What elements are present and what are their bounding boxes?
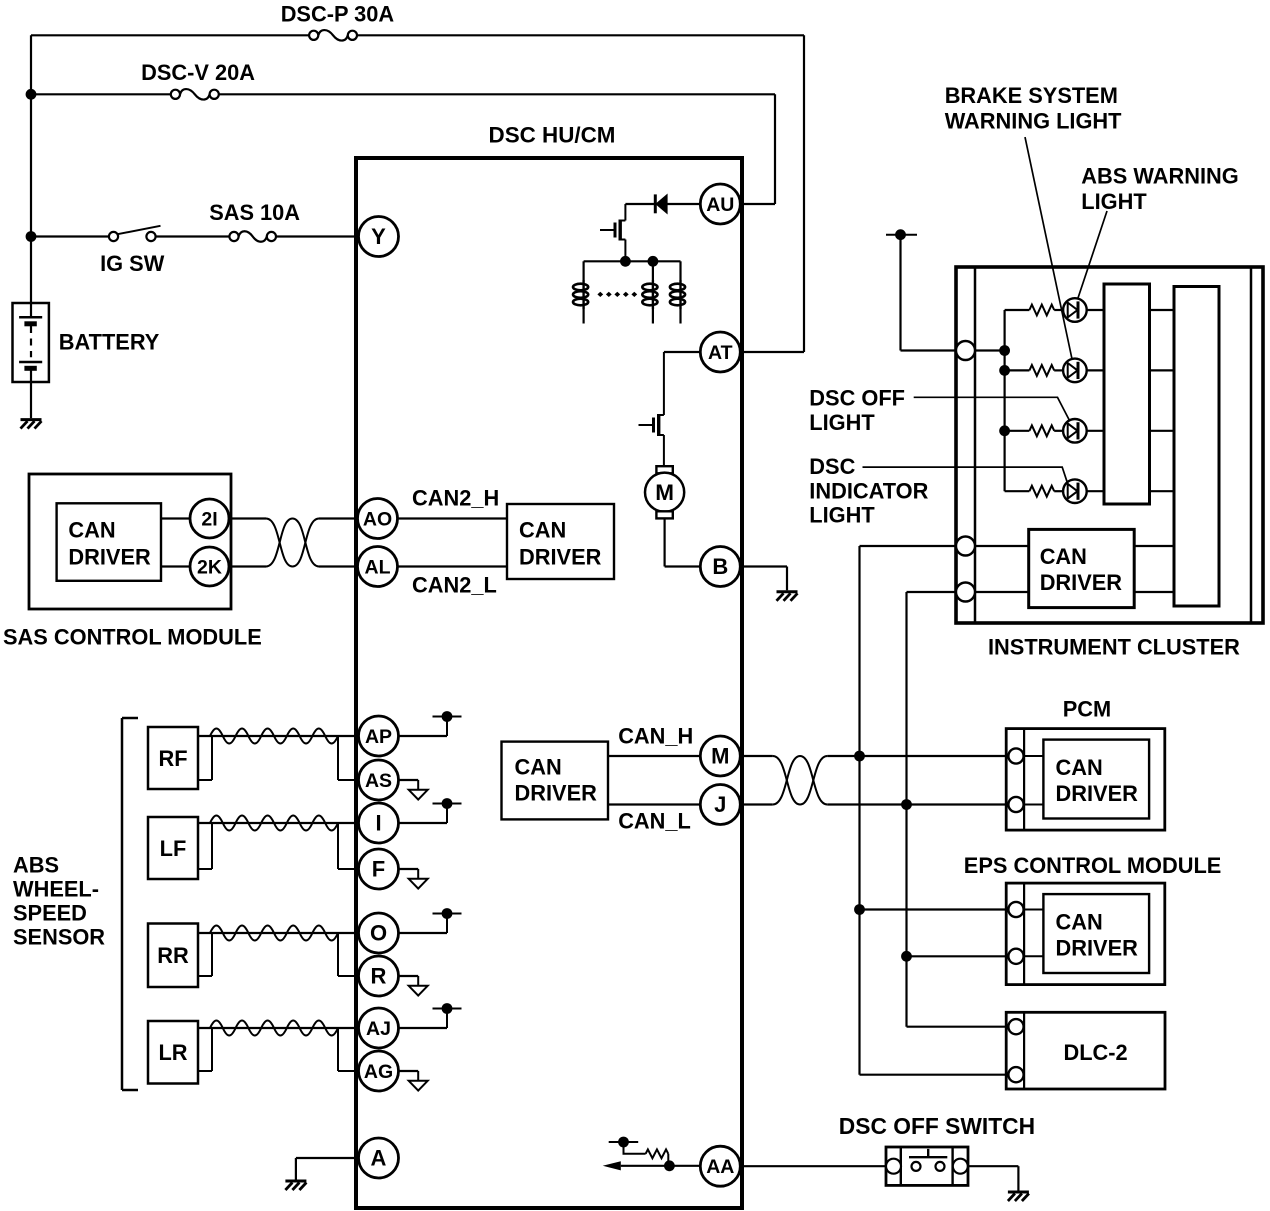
svg-text:DRIVER: DRIVER	[1056, 781, 1139, 806]
svg-text:BATTERY: BATTERY	[59, 330, 160, 355]
svg-text:AT: AT	[708, 342, 733, 364]
svg-text:AG: AG	[364, 1061, 393, 1083]
svg-text:M: M	[655, 480, 674, 505]
svg-text:DLC-2: DLC-2	[1064, 1040, 1128, 1065]
svg-text:AP: AP	[365, 726, 392, 748]
svg-text:A: A	[371, 1146, 387, 1171]
svg-text:DRIVER: DRIVER	[519, 545, 602, 570]
svg-text:EPS CONTROL MODULE: EPS CONTROL MODULE	[964, 853, 1222, 878]
svg-text:I: I	[375, 811, 381, 836]
svg-text:2I: 2I	[201, 508, 217, 530]
svg-text:WARNING LIGHT: WARNING LIGHT	[945, 109, 1122, 134]
svg-text:DSC: DSC	[809, 454, 855, 479]
svg-text:DRIVER: DRIVER	[1056, 936, 1139, 961]
svg-text:SAS 10A: SAS 10A	[209, 200, 300, 225]
svg-text:LIGHT: LIGHT	[1081, 189, 1147, 214]
svg-text:CAN: CAN	[515, 754, 562, 779]
svg-text:Y: Y	[371, 224, 386, 249]
svg-text:CAN: CAN	[1056, 755, 1103, 780]
svg-text:DSC OFF: DSC OFF	[809, 386, 905, 411]
svg-text:CAN2_H: CAN2_H	[412, 486, 499, 511]
svg-text:LIGHT: LIGHT	[809, 410, 875, 435]
svg-text:F: F	[372, 857, 385, 882]
svg-text:ABS: ABS	[13, 853, 59, 878]
svg-text:IG SW: IG SW	[100, 251, 165, 276]
svg-text:2K: 2K	[197, 556, 222, 578]
svg-text:RF: RF	[158, 746, 187, 771]
svg-text:M: M	[711, 744, 729, 769]
svg-text:CAN: CAN	[68, 517, 115, 542]
svg-text:SAS CONTROL MODULE: SAS CONTROL MODULE	[3, 625, 262, 650]
svg-text:LR: LR	[158, 1040, 187, 1065]
svg-text:O: O	[370, 921, 387, 946]
svg-text:ABS WARNING: ABS WARNING	[1081, 163, 1238, 188]
svg-text:CAN_H: CAN_H	[618, 724, 693, 749]
svg-text:AS: AS	[365, 770, 392, 792]
svg-text:DSC HU/CM: DSC HU/CM	[489, 123, 616, 148]
svg-text:AA: AA	[706, 1156, 734, 1178]
svg-text:SENSOR: SENSOR	[13, 925, 105, 950]
svg-text:B: B	[712, 554, 728, 579]
svg-text:CAN2_L: CAN2_L	[412, 573, 497, 598]
svg-text:WHEEL-: WHEEL-	[13, 877, 99, 902]
svg-text:AO: AO	[363, 508, 392, 530]
svg-text:AJ: AJ	[366, 1018, 391, 1040]
svg-text:DSC-V 20A: DSC-V 20A	[141, 60, 255, 85]
svg-text:CAN: CAN	[519, 517, 566, 542]
svg-text:J: J	[714, 792, 726, 817]
svg-text:INDICATOR: INDICATOR	[809, 479, 928, 504]
svg-text:AL: AL	[365, 556, 391, 578]
svg-text:R: R	[371, 964, 387, 989]
svg-text:AU: AU	[706, 194, 734, 216]
svg-text:CAN: CAN	[1040, 544, 1087, 569]
svg-text:CAN: CAN	[1056, 909, 1103, 934]
svg-text:INSTRUMENT CLUSTER: INSTRUMENT CLUSTER	[988, 635, 1240, 660]
svg-text:LIGHT: LIGHT	[809, 503, 875, 528]
svg-text:PCM: PCM	[1063, 697, 1111, 722]
svg-text:CAN_L: CAN_L	[618, 809, 691, 834]
svg-text:DSC OFF SWITCH: DSC OFF SWITCH	[839, 1113, 1035, 1139]
svg-text:DRIVER: DRIVER	[68, 545, 151, 570]
svg-text:DSC-P 30A: DSC-P 30A	[281, 2, 395, 27]
svg-text:LF: LF	[160, 836, 187, 861]
svg-text:BRAKE SYSTEM: BRAKE SYSTEM	[945, 83, 1118, 108]
svg-text:SPEED: SPEED	[13, 901, 87, 926]
svg-text:DRIVER: DRIVER	[515, 781, 598, 806]
svg-text:DRIVER: DRIVER	[1040, 570, 1123, 595]
svg-text:RR: RR	[157, 943, 189, 968]
